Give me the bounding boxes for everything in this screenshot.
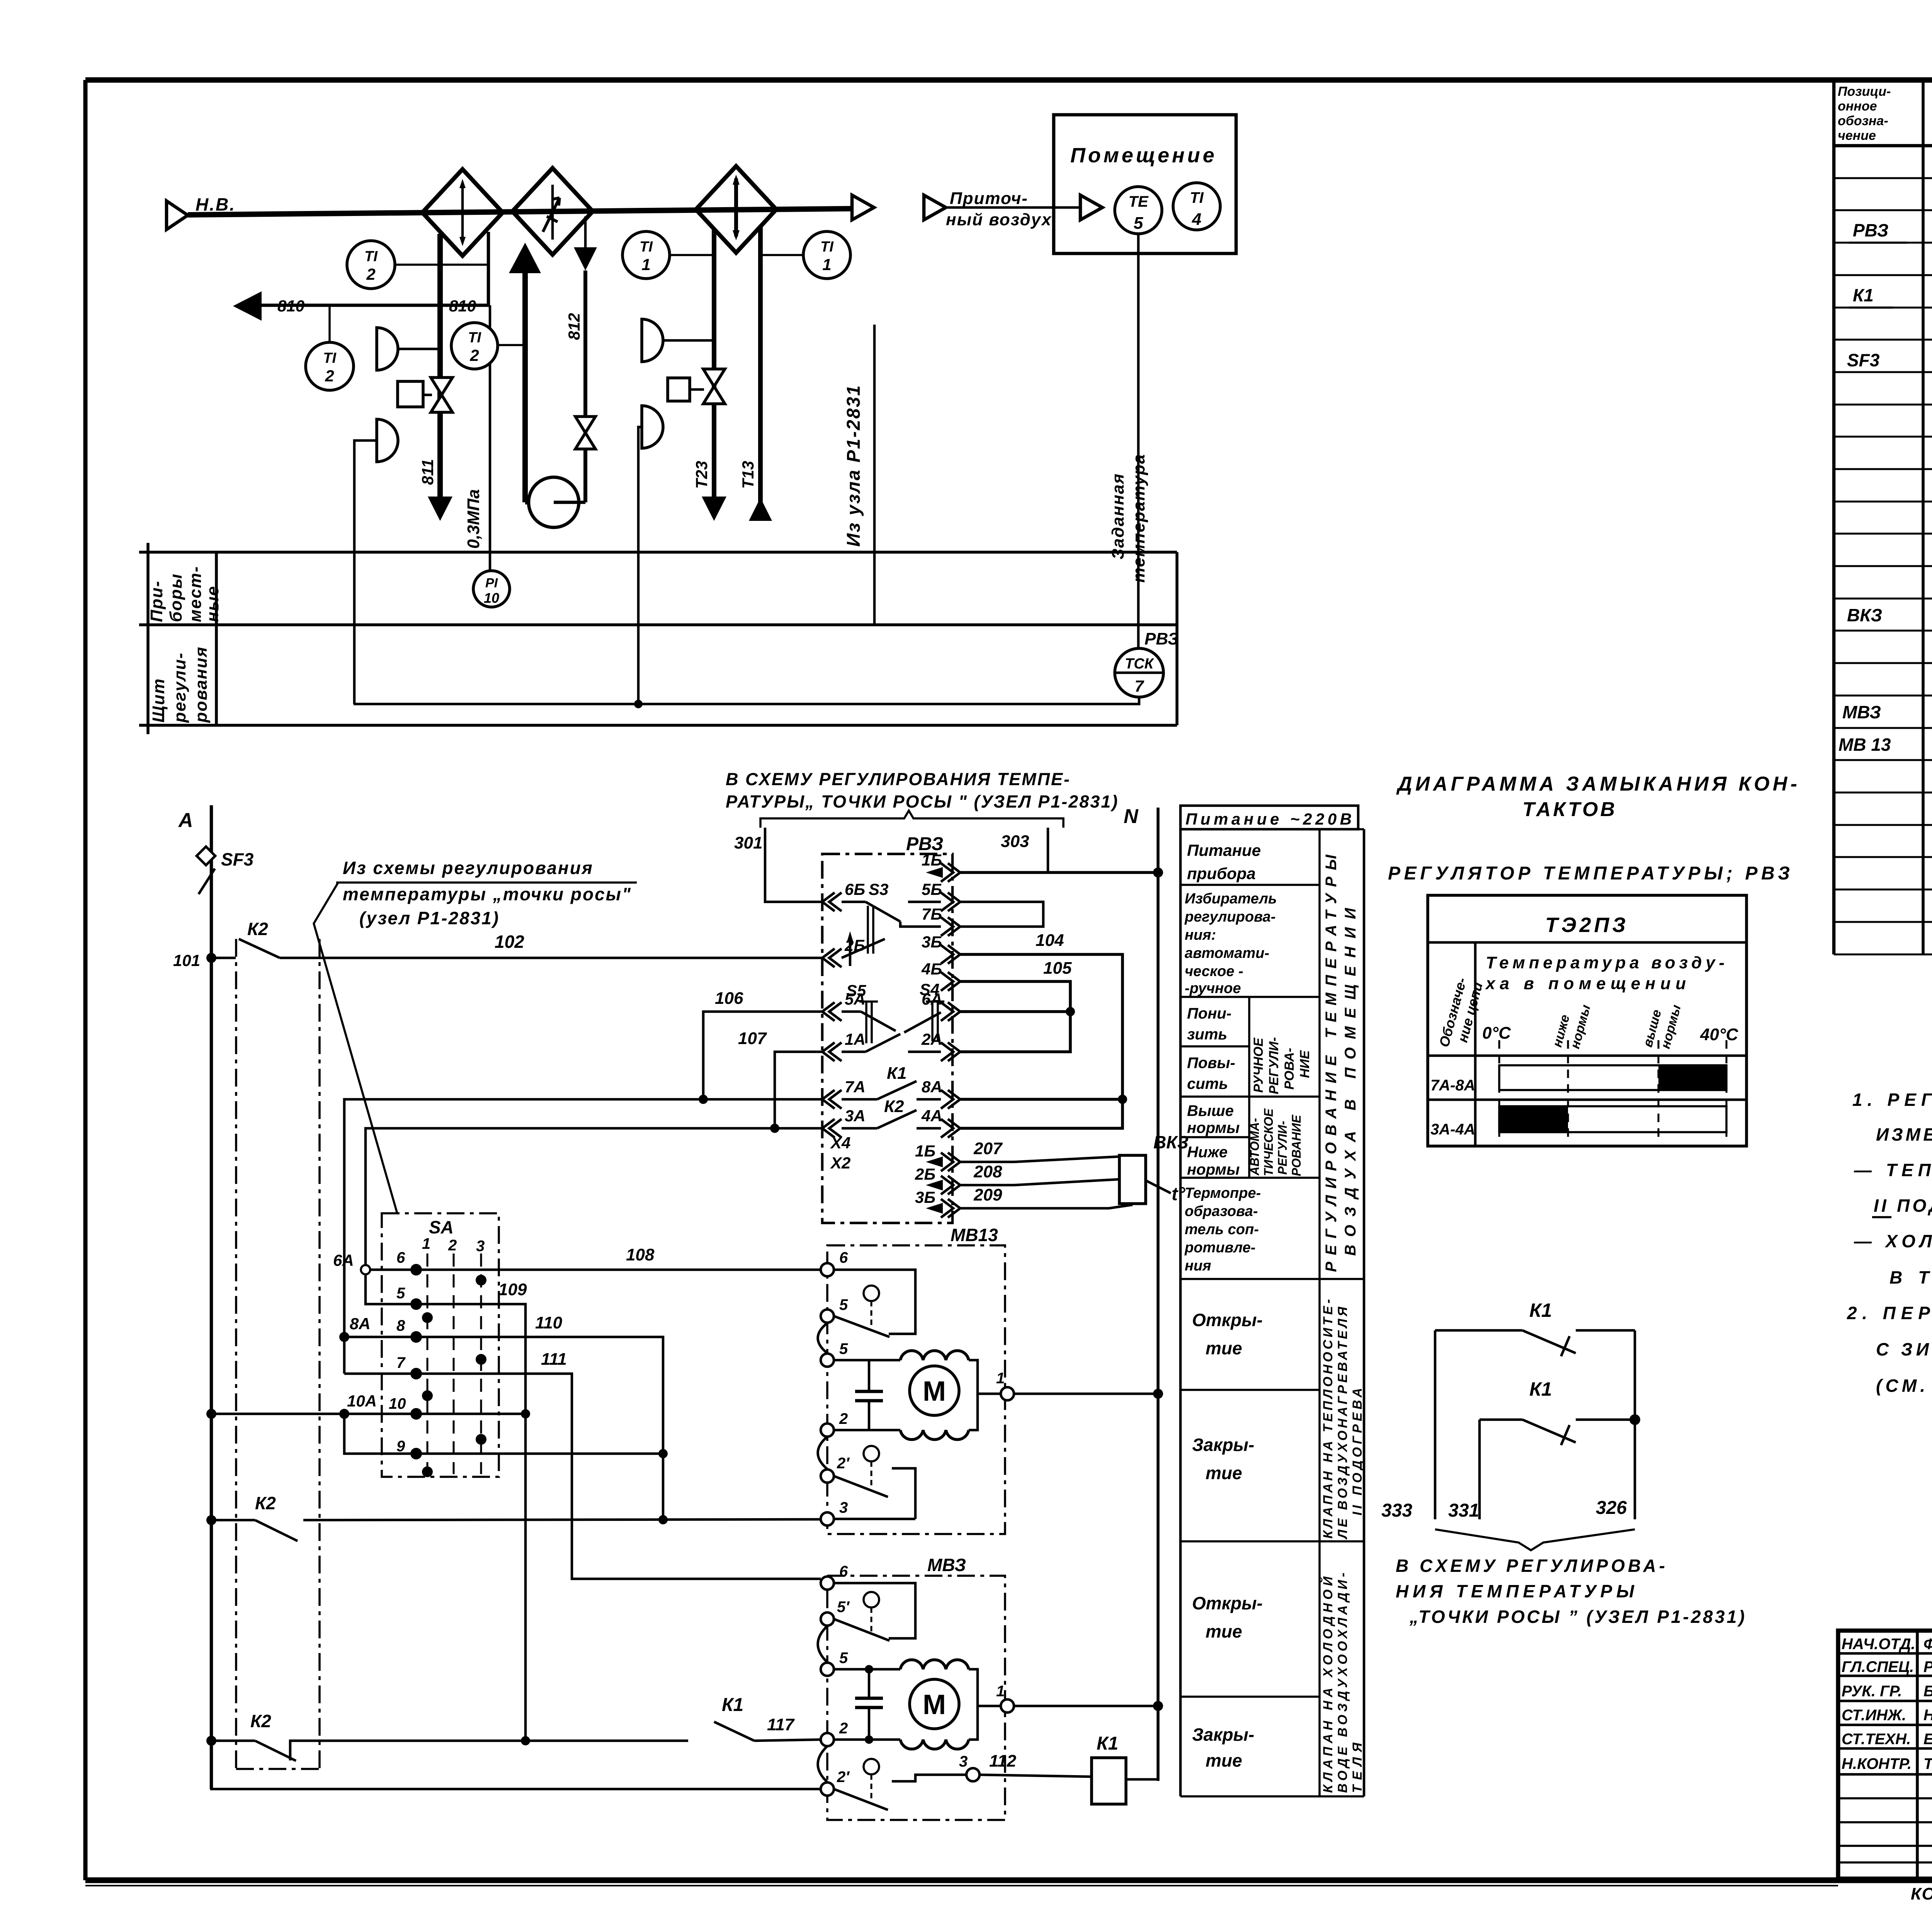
svg-text:ВОДЕ ВОЗДУХООХЛАДИ-: ВОДЕ ВОЗДУХООХЛАДИ- bbox=[1335, 1573, 1350, 1793]
frame top border bbox=[85, 77, 1932, 83]
svg-text:303: 303 bbox=[1001, 832, 1029, 851]
MB13 pin 5prime with contact bbox=[821, 1296, 889, 1337]
heat exchanger D2 with fan symbol bbox=[512, 168, 593, 255]
wire SA row7 = wire 111 bbox=[344, 1350, 821, 1579]
MB13 pin 2prime with contact bbox=[821, 1455, 888, 1497]
svg-text:811: 811 bbox=[418, 459, 437, 485]
svg-text:ческое -: ческое - bbox=[1185, 963, 1243, 980]
svg-text:Х2: Х2 bbox=[830, 1154, 850, 1172]
svg-text:3А-4А: 3А-4А bbox=[1430, 1121, 1475, 1138]
svg-text:ТЕ: ТЕ bbox=[1128, 193, 1148, 210]
indicator TI2 a bbox=[347, 241, 488, 289]
svg-text:3: 3 bbox=[839, 1499, 848, 1516]
svg-text:МВ13: МВ13 bbox=[951, 1225, 998, 1245]
svg-text:БРОНШТЕЙН: БРОНШТЕЙН bbox=[1923, 1682, 1932, 1700]
signal table row lines bbox=[1180, 828, 1364, 830]
svg-text:2Б: 2Б bbox=[915, 1165, 935, 1183]
svg-text:8А: 8А bbox=[350, 1315, 371, 1333]
signature rows text bbox=[1842, 1636, 1932, 1772]
breaker SF3 bbox=[197, 847, 254, 894]
MB13 upper limit bracket bbox=[834, 1270, 915, 1334]
node 8A bbox=[339, 1315, 371, 1342]
svg-text:S4: S4 bbox=[920, 980, 939, 998]
svg-text:326: 326 bbox=[1596, 1498, 1627, 1518]
svg-text:К1: К1 bbox=[722, 1695, 743, 1715]
svg-text:ные: ные bbox=[203, 585, 222, 622]
band left boundary bbox=[146, 543, 150, 734]
svg-text:107: 107 bbox=[738, 1029, 767, 1048]
wire SA row10 from phase bbox=[206, 1392, 526, 1420]
svg-text:ния:: ния: bbox=[1185, 927, 1216, 943]
svg-text:SА: SА bbox=[429, 1217, 454, 1237]
svg-text:ТІ: ТІ bbox=[323, 350, 337, 366]
svg-text:ный воздух: ный воздух bbox=[946, 210, 1052, 229]
band right edge bbox=[1175, 552, 1179, 725]
svg-text:6: 6 bbox=[839, 1563, 848, 1580]
svg-text:4Б: 4Б bbox=[921, 960, 942, 978]
svg-text:температура: температура bbox=[1129, 454, 1148, 583]
svg-text:Из схемы регулирования: Из схемы регулирования bbox=[343, 858, 594, 878]
wire 208 to BK3 bbox=[926, 1162, 1119, 1190]
actuator MB13 block bbox=[827, 1225, 1005, 1534]
pipe D1 right with 810 line bbox=[262, 232, 488, 305]
svg-text:онное: онное bbox=[1838, 99, 1877, 114]
svg-text:Т23: Т23 bbox=[692, 461, 711, 489]
svg-text:ТИЧЕСКОЕ: ТИЧЕСКОЕ bbox=[1262, 1108, 1276, 1176]
svg-text:SF3: SF3 bbox=[221, 849, 254, 869]
svg-text:2′: 2′ bbox=[837, 1769, 850, 1786]
wire zadannaya temperatura from TE5 down bbox=[1137, 234, 1140, 648]
svg-text:тие: тие bbox=[1206, 1750, 1242, 1770]
relay coil K1 bbox=[1092, 1733, 1158, 1804]
svg-text:тие: тие bbox=[1206, 1621, 1242, 1641]
phase A bus vertical bbox=[210, 805, 213, 1789]
svg-text:Позици-: Позици- bbox=[1838, 84, 1891, 99]
svg-text:ИЗМЕНЕНИЕМ:: ИЗМЕНЕНИЕМ: bbox=[1876, 1124, 1932, 1145]
wire iz uzla P1-2831 bbox=[873, 325, 876, 625]
svg-text:РВЗ: РВЗ bbox=[1145, 629, 1179, 648]
RV3 left pin connectors bbox=[822, 893, 842, 1138]
wire SA row5 = wire 109 bbox=[366, 1274, 530, 1745]
svg-text:109: 109 bbox=[498, 1280, 527, 1299]
scale tick dashed lines bbox=[1499, 1040, 1726, 1143]
actuator diaphragm upper D1 bbox=[377, 328, 398, 370]
svg-text:S5: S5 bbox=[846, 981, 866, 1000]
wire 1B to N bbox=[926, 867, 1163, 878]
parts table row lines bbox=[1834, 177, 1932, 179]
svg-text:3: 3 bbox=[959, 1753, 968, 1770]
svg-text:ГЛ.СПЕЦ.: ГЛ.СПЕЦ. bbox=[1842, 1658, 1914, 1675]
svg-text:АВТОМА-: АВТОМА- bbox=[1248, 1118, 1262, 1176]
actuator MB3 block bbox=[827, 1555, 1005, 1820]
svg-text:5: 5 bbox=[839, 1296, 848, 1313]
MB13 winding upper bbox=[900, 1350, 969, 1360]
heat exchanger D3 bbox=[696, 166, 776, 253]
indicator TI4 bbox=[1173, 183, 1220, 230]
svg-text:К1: К1 bbox=[1529, 1299, 1552, 1321]
svg-text:ФИНГЕР: ФИНГЕР bbox=[1923, 1636, 1932, 1653]
selector switch SA box bbox=[382, 1213, 499, 1477]
MB13 pin 5 bbox=[821, 1340, 900, 1367]
svg-text:Помещение: Помещение bbox=[1070, 144, 1217, 167]
svg-text:РУЧНОЕ: РУЧНОЕ bbox=[1251, 1037, 1266, 1093]
svg-text:1Б: 1Б bbox=[915, 1142, 935, 1160]
instrument band top line bbox=[139, 551, 1177, 554]
svg-text:ДИАГРАММА ЗАМЫКАНИЯ КОН-: ДИАГРАММА ЗАМЫКАНИЯ КОН- bbox=[1396, 773, 1799, 795]
svg-text:нормы: нормы bbox=[1187, 1161, 1240, 1178]
svg-text:Заданная: Заданная bbox=[1109, 473, 1128, 560]
svg-text:t°: t° bbox=[1172, 1184, 1185, 1204]
MB3 lower limit bracket to pin 3 bbox=[892, 1775, 966, 1781]
svg-text:Щит: Щит bbox=[149, 678, 168, 723]
svg-text:При-: При- bbox=[147, 580, 166, 622]
wire 102 bbox=[280, 932, 822, 958]
sensor TE5 bbox=[1115, 187, 1162, 234]
svg-text:6Б: 6Б bbox=[845, 880, 865, 898]
svg-text:образова-: образова- bbox=[1185, 1203, 1258, 1219]
MB3 jog 2-2prime bbox=[818, 1746, 828, 1782]
svg-text:РОВА-: РОВА- bbox=[1282, 1048, 1297, 1090]
pipe D1 left (hot water supply) bbox=[437, 234, 443, 498]
contact S5 bbox=[842, 981, 896, 1043]
svg-text:5: 5 bbox=[1134, 214, 1143, 233]
panel boundary dash-dot bottom bbox=[236, 1768, 320, 1770]
svg-text:ротивле-: ротивле- bbox=[1184, 1240, 1255, 1256]
MB3 pin 5 bbox=[821, 1650, 900, 1676]
svg-text:2: 2 bbox=[325, 367, 334, 385]
svg-text:Избиратель: Избиратель bbox=[1185, 891, 1277, 907]
svg-text:104: 104 bbox=[1036, 931, 1064, 950]
arrow pipe 811 end bbox=[428, 497, 452, 521]
MB3 motor M bbox=[910, 1679, 959, 1729]
svg-text:1: 1 bbox=[422, 1235, 430, 1252]
MB3 limit lamp lower bbox=[864, 1759, 879, 1800]
node 6A with circle bbox=[333, 1251, 370, 1274]
svg-text:зить: зить bbox=[1187, 1026, 1227, 1043]
svg-text:РІ: РІ bbox=[485, 576, 498, 590]
svg-text:С ЗИМНЕГО РЕЖИМА НА ЛЕТНИЙ: С ЗИМНЕГО РЕЖИМА НА ЛЕТНИЙ И ОБРАТНО bbox=[1876, 1339, 1932, 1359]
label pribory mestnye bbox=[147, 566, 222, 622]
svg-text:ния: ния bbox=[1185, 1258, 1211, 1274]
svg-text:ВКЗ: ВКЗ bbox=[1847, 605, 1882, 625]
wire 8A bbox=[960, 1098, 1122, 1101]
svg-text:1: 1 bbox=[996, 1370, 1005, 1387]
svg-text:SF3: SF3 bbox=[1847, 350, 1880, 370]
svg-text:5: 5 bbox=[396, 1285, 405, 1302]
SA position columns 1 2 3 bbox=[427, 1253, 481, 1474]
MB13 capacitor bbox=[855, 1360, 883, 1430]
svg-text:МВ 13: МВ 13 bbox=[1838, 735, 1891, 755]
MB13 limit lamp upper bbox=[864, 1286, 879, 1326]
pipe D2 left with up arrow bbox=[509, 243, 541, 273]
svg-text:3Б: 3Б bbox=[915, 1188, 935, 1206]
MB3 pin 2prime with contact bbox=[821, 1769, 888, 1810]
svg-text:боры: боры bbox=[167, 573, 185, 622]
wire 3A long bbox=[366, 1128, 822, 1270]
pipe D2 right 812 bbox=[584, 216, 587, 247]
wire 303 bbox=[1001, 828, 1048, 872]
frame left border bbox=[83, 80, 88, 1880]
svg-text:101: 101 bbox=[173, 951, 200, 969]
indicator TI2 d bbox=[451, 323, 525, 369]
signal table outline bbox=[1179, 829, 1182, 1796]
MB3 limit lamp upper bbox=[864, 1592, 879, 1631]
svg-text:К2: К2 bbox=[250, 1711, 271, 1731]
title block signature rows bbox=[1838, 1652, 1932, 1655]
node 101 bbox=[173, 951, 216, 969]
svg-text:810: 810 bbox=[277, 297, 304, 315]
wire main air duct bbox=[188, 209, 852, 215]
MB3 pin 3 bbox=[959, 1753, 980, 1781]
wire SA row9 bbox=[344, 1414, 663, 1459]
svg-text:К2: К2 bbox=[884, 1097, 904, 1116]
parts table header bottom bbox=[1834, 144, 1932, 148]
MB13 pin 6 bbox=[821, 1249, 848, 1276]
sensor BK3 thermoresistor bbox=[1119, 1132, 1189, 1204]
svg-text:РУБЧИНСКИЙ: РУБЧИНСКИЙ bbox=[1923, 1657, 1932, 1675]
wire to room bbox=[947, 206, 1080, 209]
svg-text:КЛАПАН НА ХОЛОДНОЙ: КЛАПАН НА ХОЛОДНОЙ bbox=[1320, 1576, 1335, 1793]
actuator diaphragm lower D1 bbox=[377, 419, 398, 462]
manual arrow on 2B bbox=[842, 931, 885, 966]
indicator TI1 right bbox=[760, 231, 850, 279]
svg-text:РЕГУЛЯТОР ТЕМПЕРАТУРЫ; РВЗ: РЕГУЛЯТОР ТЕМПЕРАТУРЫ; РВЗ bbox=[1388, 863, 1792, 884]
svg-text:Пони-: Пони- bbox=[1187, 1005, 1231, 1022]
wire actuator D3 to panel bbox=[638, 427, 642, 704]
svg-text:Питание: Питание bbox=[1187, 841, 1261, 859]
instrument band bottom line bbox=[139, 724, 1177, 727]
svg-text:2′: 2′ bbox=[837, 1455, 850, 1472]
duct outlet arrow bbox=[852, 195, 874, 220]
svg-text:А: А bbox=[178, 809, 193, 832]
svg-text:регулирова-: регулирова- bbox=[1184, 909, 1276, 925]
pressure tap 0.3MPa to PI10 bbox=[489, 305, 492, 571]
MB13 jog 2-2prime bbox=[818, 1437, 828, 1469]
rotated label klapan na kholodnoy vode bbox=[1320, 1573, 1365, 1793]
wire SA row8 = wire 110 bbox=[344, 1313, 668, 1524]
panel boundary dash-dot right bbox=[318, 939, 321, 1769]
svg-text:Повы-: Повы- bbox=[1187, 1054, 1235, 1071]
svg-text:обозна-: обозна- bbox=[1838, 114, 1888, 128]
bracket to dew point control circuit bbox=[726, 769, 1119, 828]
svg-text:РЕГУЛИ-: РЕГУЛИ- bbox=[1267, 1037, 1281, 1094]
svg-text:НИКИФОРОВА: НИКИФОРОВА bbox=[1923, 1707, 1932, 1724]
pump circle bbox=[529, 477, 579, 527]
svg-text:В СХЕМУ РЕГУЛИРОВАНИЯ ТЕМП: В СХЕМУ РЕГУЛИРОВАНИЯ ТЕМПЕ- bbox=[726, 769, 1071, 789]
svg-text:1: 1 bbox=[996, 1683, 1005, 1700]
svg-text:108: 108 bbox=[626, 1245, 655, 1264]
contact 1A-2A bbox=[842, 1034, 941, 1052]
wire 104 bbox=[960, 931, 1127, 1128]
frame bottom second line bbox=[85, 1885, 1838, 1886]
svg-text:Откры-: Откры- bbox=[1192, 1593, 1263, 1613]
indicator TI2 b bbox=[306, 305, 354, 390]
svg-text:5Б: 5Б bbox=[922, 880, 942, 898]
svg-text:5′: 5′ bbox=[837, 1599, 850, 1616]
svg-text:2: 2 bbox=[839, 1410, 848, 1427]
note iz skhemy regulirovaniya bbox=[314, 858, 637, 1213]
svg-text:ТІ: ТІ bbox=[639, 239, 653, 255]
title block signature columns bbox=[1916, 1631, 1919, 1879]
svg-text:40°С: 40°С bbox=[1700, 1025, 1739, 1044]
svg-text:РЕГУЛИ-: РЕГУЛИ- bbox=[1276, 1121, 1289, 1175]
svg-text:РОВАНИЕ: РОВАНИЕ bbox=[1289, 1114, 1303, 1176]
MB3 upper limit bracket bbox=[834, 1583, 915, 1638]
svg-text:прибора: прибора bbox=[1187, 864, 1256, 883]
valve on D3 pipe bbox=[703, 369, 725, 404]
svg-text:РУК. ГР.: РУК. ГР. bbox=[1842, 1683, 1902, 1700]
contact K2 inside RV3 bbox=[842, 1097, 941, 1128]
pipe D3 right T13 bbox=[758, 226, 763, 520]
MB3 pin 2 bbox=[821, 1720, 900, 1746]
svg-text:6: 6 bbox=[396, 1249, 405, 1266]
wire 5B-7B loop bbox=[960, 902, 1043, 927]
wire 209 to BK3 bbox=[926, 1185, 1133, 1214]
heat exchanger D1 bbox=[422, 169, 503, 256]
svg-text:ТІ: ТІ bbox=[1190, 189, 1204, 206]
svg-text:5: 5 bbox=[839, 1340, 848, 1357]
svg-text:117: 117 bbox=[767, 1715, 795, 1734]
svg-text:автомати-: автомати- bbox=[1185, 945, 1269, 961]
svg-text:2: 2 bbox=[366, 265, 375, 283]
svg-text:7А: 7А bbox=[845, 1078, 866, 1096]
MB3 pin 5prime with contact bbox=[821, 1599, 889, 1641]
RV3 right pin connectors bbox=[941, 863, 960, 1218]
svg-text:10: 10 bbox=[484, 590, 499, 606]
parts table header texts bbox=[1838, 84, 1891, 143]
svg-text:7А-8А: 7А-8А bbox=[1430, 1077, 1475, 1094]
svg-text:0°С: 0°С bbox=[1482, 1024, 1511, 1043]
MB13 motor M bbox=[910, 1366, 959, 1415]
wire 112 bbox=[980, 1752, 1092, 1777]
svg-text:1Б: 1Б bbox=[922, 851, 942, 869]
parts table outer verticals bbox=[1832, 80, 1836, 954]
svg-text:208: 208 bbox=[973, 1162, 1002, 1181]
svg-text:ТСК: ТСК bbox=[1125, 656, 1155, 672]
rotated label avtomaticheskoe regulirovanie bbox=[1248, 1108, 1303, 1176]
svg-text:3: 3 bbox=[476, 1238, 485, 1255]
svg-text:4: 4 bbox=[1192, 210, 1201, 229]
contact K1 inside RV3 bbox=[842, 1064, 941, 1099]
svg-text:ІІ ПОДОГРЕВА В ХОЛОДНЫЙ ПЕ: ІІ ПОДОГРЕВА В ХОЛОДНЫЙ ПЕРИОД ГОДА; bbox=[1874, 1196, 1932, 1216]
svg-text:Х4: Х4 bbox=[830, 1134, 850, 1152]
svg-text:температуры „точки росы": температуры „точки росы" bbox=[343, 884, 632, 904]
svg-text:209: 209 bbox=[973, 1185, 1002, 1204]
row izbiratel regulirovaniya bbox=[1184, 891, 1277, 997]
svg-text:105: 105 bbox=[1043, 959, 1072, 978]
MB13 pin 3 bbox=[821, 1499, 915, 1526]
note v skhemu regulirovaniya bbox=[1396, 1556, 1746, 1627]
rotated label klapan na teplonositele bbox=[1321, 1299, 1365, 1540]
svg-text:Н.КОНТР.: Н.КОНТР. bbox=[1842, 1755, 1912, 1772]
svg-text:В СХЕМУ РЕГУЛИРОВА-: В СХЕМУ РЕГУЛИРОВА- bbox=[1396, 1556, 1666, 1576]
svg-text:МВЗ: МВЗ bbox=[1842, 702, 1881, 722]
gauge PI10 bbox=[473, 571, 510, 607]
svg-text:10: 10 bbox=[389, 1395, 406, 1412]
signal table header box pitanie 220V bbox=[1180, 806, 1358, 829]
svg-text:8: 8 bbox=[396, 1317, 405, 1334]
svg-text:рования: рования bbox=[192, 646, 211, 723]
svg-text:сить: сить bbox=[1187, 1075, 1228, 1092]
svg-text:В ТЕПЛЫЙ ПЕРИОД ГОДА;: В ТЕПЛЫЙ ПЕРИОД ГОДА; bbox=[1889, 1267, 1932, 1287]
MB13 pin 1 bbox=[996, 1370, 1163, 1400]
MB3 winding upper bbox=[900, 1660, 969, 1669]
contact S3 bbox=[842, 880, 941, 954]
svg-text:ТІ: ТІ bbox=[468, 330, 481, 346]
svg-text:207: 207 bbox=[973, 1139, 1003, 1158]
svg-text:6: 6 bbox=[839, 1249, 848, 1266]
svg-text:КЛАПАН НА ТЕПЛОНОСИТЕ-: КЛАПАН НА ТЕПЛОНОСИТЕ- bbox=[1321, 1299, 1335, 1539]
svg-text:810: 810 bbox=[449, 297, 476, 315]
MB3 pin 1 bbox=[996, 1683, 1163, 1713]
svg-text:ТЭ2ПЗ: ТЭ2ПЗ bbox=[1545, 913, 1629, 937]
svg-text:S3: S3 bbox=[869, 880, 888, 898]
rotated label regulirovanie temperatury vozdukha bbox=[1323, 854, 1359, 1272]
positioner box D3 bbox=[668, 378, 690, 401]
svg-text:„ТОЧКИ РОСЫ ” (УЗЕЛ Р1-2831): „ТОЧКИ РОСЫ ” (УЗЕЛ Р1-2831) bbox=[1409, 1607, 1746, 1627]
svg-text:тель соп-: тель соп- bbox=[1185, 1221, 1259, 1238]
MB3 winding lower bbox=[900, 1740, 969, 1749]
sensor TSK7 on panel row bbox=[1115, 629, 1179, 697]
svg-text:нормы: нормы bbox=[1187, 1119, 1240, 1136]
svg-text:111: 111 bbox=[541, 1350, 567, 1369]
svg-text:Откры-: Откры- bbox=[1192, 1310, 1263, 1330]
provision notes block bbox=[1847, 1044, 1932, 1396]
MB3 capacitor bbox=[855, 1669, 883, 1740]
rows otkrytie zakrytie bbox=[1192, 1310, 1263, 1770]
svg-text:2: 2 bbox=[448, 1237, 457, 1254]
svg-text:ТІ: ТІ bbox=[364, 248, 378, 265]
indicator TI1 left bbox=[622, 231, 714, 279]
svg-text:НИЕ: НИЕ bbox=[1298, 1050, 1312, 1078]
svg-text:НАЧ.ОТД.: НАЧ.ОТД. bbox=[1842, 1636, 1915, 1653]
wire 301 bbox=[734, 828, 822, 902]
svg-text:106: 106 bbox=[715, 989, 743, 1008]
svg-text:333: 333 bbox=[1381, 1500, 1412, 1521]
svg-text:Термопре-: Термопре- bbox=[1185, 1185, 1261, 1201]
MB13 winding lower bbox=[900, 1430, 969, 1440]
MB3 pin 6 bbox=[821, 1563, 848, 1590]
wire 117 with contacts K2 and K1 bbox=[206, 1695, 821, 1761]
svg-text:331: 331 bbox=[1448, 1500, 1479, 1521]
instrument band middle line bbox=[139, 623, 1177, 626]
neutral N bus vertical bbox=[1156, 808, 1160, 1781]
node N.V. fresh air inlet arrow bbox=[167, 201, 188, 230]
svg-text:К2: К2 bbox=[247, 919, 268, 939]
svg-text:Закры-: Закры- bbox=[1192, 1725, 1254, 1745]
rotated label ruchnoe regulirovanie bbox=[1251, 1037, 1312, 1094]
svg-text:регули-: регули- bbox=[170, 652, 189, 723]
svg-text:812: 812 bbox=[565, 313, 583, 340]
svg-text:тие: тие bbox=[1206, 1338, 1242, 1358]
valve on D1 pipe bbox=[431, 378, 452, 412]
svg-text:8А: 8А bbox=[922, 1078, 942, 1096]
label shchit regulirovaniya bbox=[149, 646, 211, 723]
svg-text:К1: К1 bbox=[1853, 285, 1874, 305]
svg-text:Т13: Т13 bbox=[739, 461, 757, 489]
pipe D3 left T23 bbox=[712, 229, 716, 498]
svg-text:10А: 10А bbox=[347, 1392, 377, 1410]
svg-text:ЕФИМКИНА: ЕФИМКИНА bbox=[1923, 1731, 1932, 1748]
svg-text:К1: К1 bbox=[1097, 1733, 1118, 1754]
MB13 pin 2 bbox=[821, 1410, 900, 1437]
svg-text:0,3МПа: 0,3МПа bbox=[464, 489, 483, 549]
row termopreobrazovatel bbox=[1184, 1185, 1261, 1274]
supply air arrow 2 bbox=[1080, 195, 1102, 220]
arrow 810 left bbox=[233, 291, 262, 321]
title block outer bbox=[1838, 1631, 1932, 1879]
wire to MB13 pin3 with contact K2 bbox=[206, 1493, 821, 1541]
